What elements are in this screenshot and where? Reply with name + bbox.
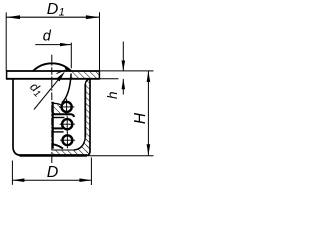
svg-text:d: d [43, 29, 52, 45]
right wall with corner [87, 79, 90, 156]
hatch right wall band [86, 79, 89, 153]
ball dome [33, 63, 71, 71]
d extension [70, 43, 72, 69]
flange left edge [6, 70, 8, 79]
D right arrow [79, 178, 91, 182]
channel line 1 [52, 114, 74, 117]
hatch lip bump sliver [64, 67, 71, 72]
channel line 2 [52, 117, 64, 119]
inner lip arc [57, 71, 65, 74]
center section edge [52, 102, 54, 149]
D left arrow [12, 178, 24, 182]
lip wedge right [64, 66, 71, 71]
D left extension [11, 161, 13, 185]
hatch bottom band [52, 138, 89, 156]
dimension H line [147, 71, 149, 155]
h upper arrow [122, 61, 126, 72]
D1 left arrow [6, 15, 20, 19]
svg-text:h: h [105, 91, 120, 99]
svg-text:1: 1 [59, 7, 65, 19]
seat line [52, 103, 60, 104]
hatch seat web [53, 105, 63, 114]
left wall with bottom fillet [13, 79, 21, 155]
dimension h upper line [122, 42, 124, 71]
label d1 [26, 80, 46, 100]
D1 left extension [5, 12, 7, 70]
ball 1 cross [59, 106, 74, 108]
dimension D line [12, 179, 91, 181]
h lower line [122, 79, 124, 95]
channel line 5 under ball3 [52, 144, 63, 148]
dimension d line [35, 44, 71, 46]
H top extension line [99, 70, 153, 72]
H bottom arrow [147, 144, 151, 155]
d1 leader [34, 72, 64, 109]
inner wall top curve [85, 79, 90, 84]
hatch flange right strip [71, 71, 99, 79]
d arrow [60, 43, 71, 46]
H bottom extension [88, 155, 154, 157]
bottom thick line [20, 154, 88, 157]
floor fillet [74, 138, 85, 151]
channel line 3 [52, 127, 63, 129]
h lower arrow [122, 79, 126, 90]
flange bottom line [6, 78, 99, 80]
small ball 3 [63, 135, 73, 145]
dimension D1 line [6, 16, 99, 18]
D right extension [90, 158, 92, 186]
H top arrow [147, 71, 151, 82]
h bottom extension line [99, 78, 118, 80]
d1 leader arrow [56, 72, 64, 82]
svg-text:D: D [47, 1, 59, 18]
floor line [52, 149, 74, 151]
flange top line [6, 70, 99, 72]
ball 2 cross [60, 123, 75, 125]
small ball 1 [62, 102, 72, 112]
small ball 2 [62, 119, 72, 129]
ball 3 cross [60, 139, 75, 141]
seat cavity arc [62, 74, 71, 103]
center line [51, 55, 53, 164]
channel line 4 [52, 131, 64, 133]
D1 right arrow [86, 15, 100, 19]
svg-text:D: D [47, 164, 59, 181]
svg-text:H: H [132, 112, 149, 124]
D1 right extension [99, 12, 101, 70]
flange right edge [98, 70, 100, 79]
inner wall [84, 84, 86, 138]
